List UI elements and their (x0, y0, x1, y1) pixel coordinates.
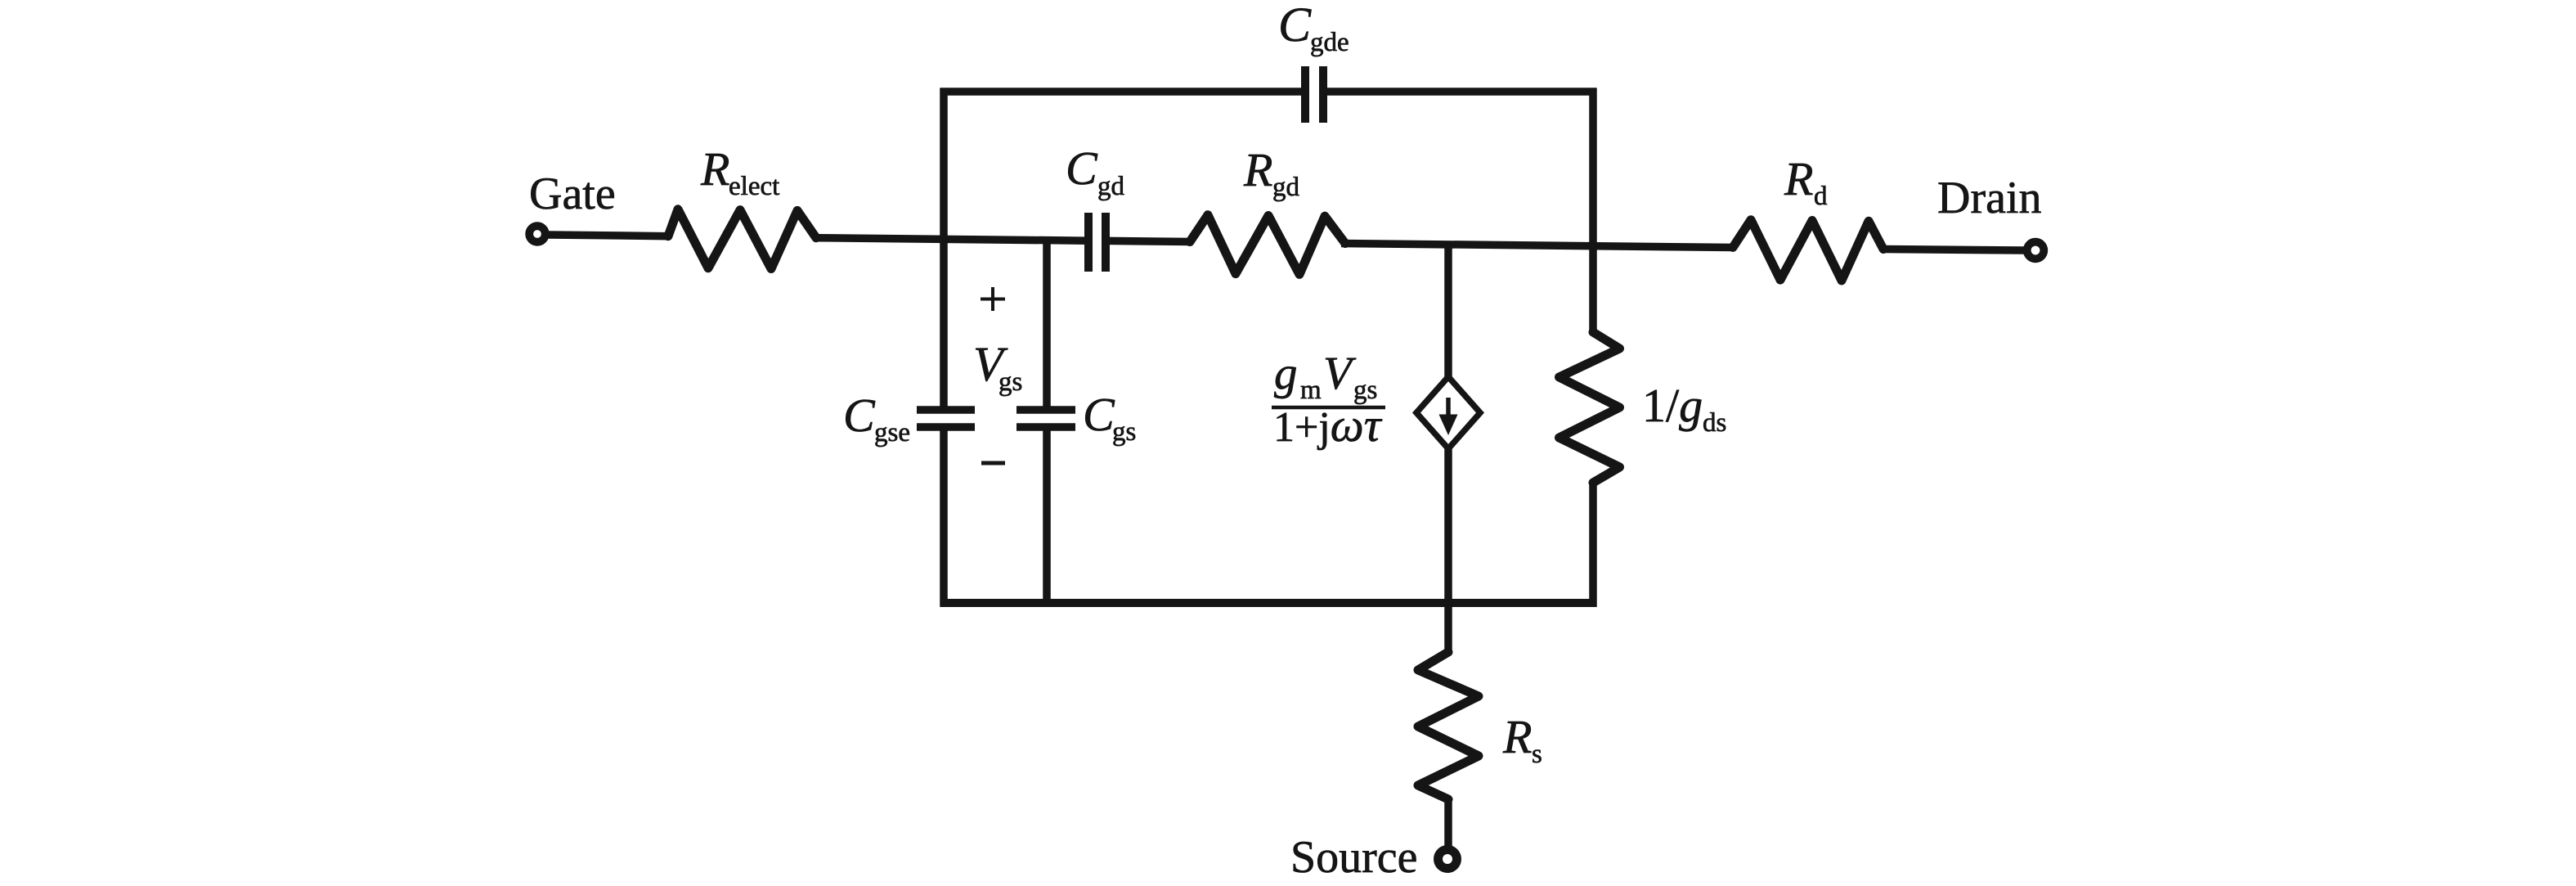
terminal Source (1438, 850, 1457, 869)
wire Cgse branch lower (940, 427, 948, 607)
svg-text:gs: gs (1112, 417, 1136, 447)
resistor Rgd (1190, 215, 1345, 275)
wire current source upper (1444, 244, 1452, 377)
svg-text:gse: gse (874, 418, 910, 447)
resistor Rd (1733, 220, 1883, 281)
svg-text:ds: ds (1703, 408, 1726, 438)
svg-text:C: C (1066, 142, 1098, 195)
svg-text:gs: gs (999, 367, 1022, 397)
wire current source lower (1444, 448, 1452, 652)
resistor 1/gds (1560, 332, 1620, 483)
svg-text:R: R (1243, 143, 1272, 196)
svg-text:C: C (843, 389, 876, 442)
wire Cgs branch upper (1043, 240, 1051, 410)
fraction bar gmVgs/(1+jwt) (1272, 406, 1385, 410)
svg-text:gd: gd (1272, 173, 1300, 202)
capacitor Cgs (1016, 406, 1075, 414)
resistor Relect (668, 209, 816, 269)
svg-text:C: C (1278, 0, 1312, 52)
svg-text:s: s (1532, 740, 1542, 769)
svg-text:gd: gd (1097, 172, 1125, 201)
svg-text:gde: gde (1310, 28, 1349, 57)
svg-text:R: R (700, 142, 729, 196)
wire Cgd to Rgd (1106, 241, 1192, 241)
wire right vertical lower (1589, 483, 1597, 607)
capacitor Cgse (917, 406, 975, 414)
capacitor Cgd (1084, 213, 1093, 272)
wire top-right vertical (1589, 88, 1597, 333)
wire gate lead (548, 235, 671, 236)
terminal Gate (529, 226, 545, 242)
svg-text:R: R (1502, 710, 1532, 763)
minus sign Vgs (981, 461, 1005, 465)
svg-text:Source: Source (1290, 832, 1418, 883)
wire top-left vertical (940, 88, 948, 411)
svg-text:g: g (1274, 348, 1298, 399)
wire Relect to Cgd (816, 238, 1088, 241)
wire bottom horizontal (940, 599, 1597, 607)
svg-text:C: C (1083, 388, 1115, 441)
svg-text:Gate: Gate (529, 169, 616, 219)
svg-text:R: R (1784, 152, 1813, 205)
svg-text:d: d (1814, 182, 1828, 211)
svg-text:V: V (1323, 348, 1357, 399)
svg-text:m: m (1300, 376, 1322, 405)
wire top horizontal left (940, 88, 1304, 96)
current source gmVgs diamond (1416, 377, 1480, 449)
resistor Rs (1418, 652, 1479, 799)
terminal Drain (2027, 242, 2044, 259)
wire Rgd to Rd (1341, 244, 1735, 248)
svg-text:Drain: Drain (1937, 173, 2042, 223)
capacitor Cgde (1301, 66, 1309, 123)
svg-text:1/g: 1/g (1642, 379, 1703, 432)
wire Rd to drain (1883, 250, 2025, 251)
arrow inside current source (1446, 398, 1451, 418)
wire Rs to source (1444, 799, 1452, 848)
svg-text:elect: elect (729, 172, 779, 201)
wire Cgs branch lower (1043, 427, 1051, 607)
svg-text:1+jωτ: 1+jωτ (1273, 398, 1383, 452)
wire top horizontal right (1325, 88, 1597, 96)
plus sign Vgs (981, 298, 1005, 301)
